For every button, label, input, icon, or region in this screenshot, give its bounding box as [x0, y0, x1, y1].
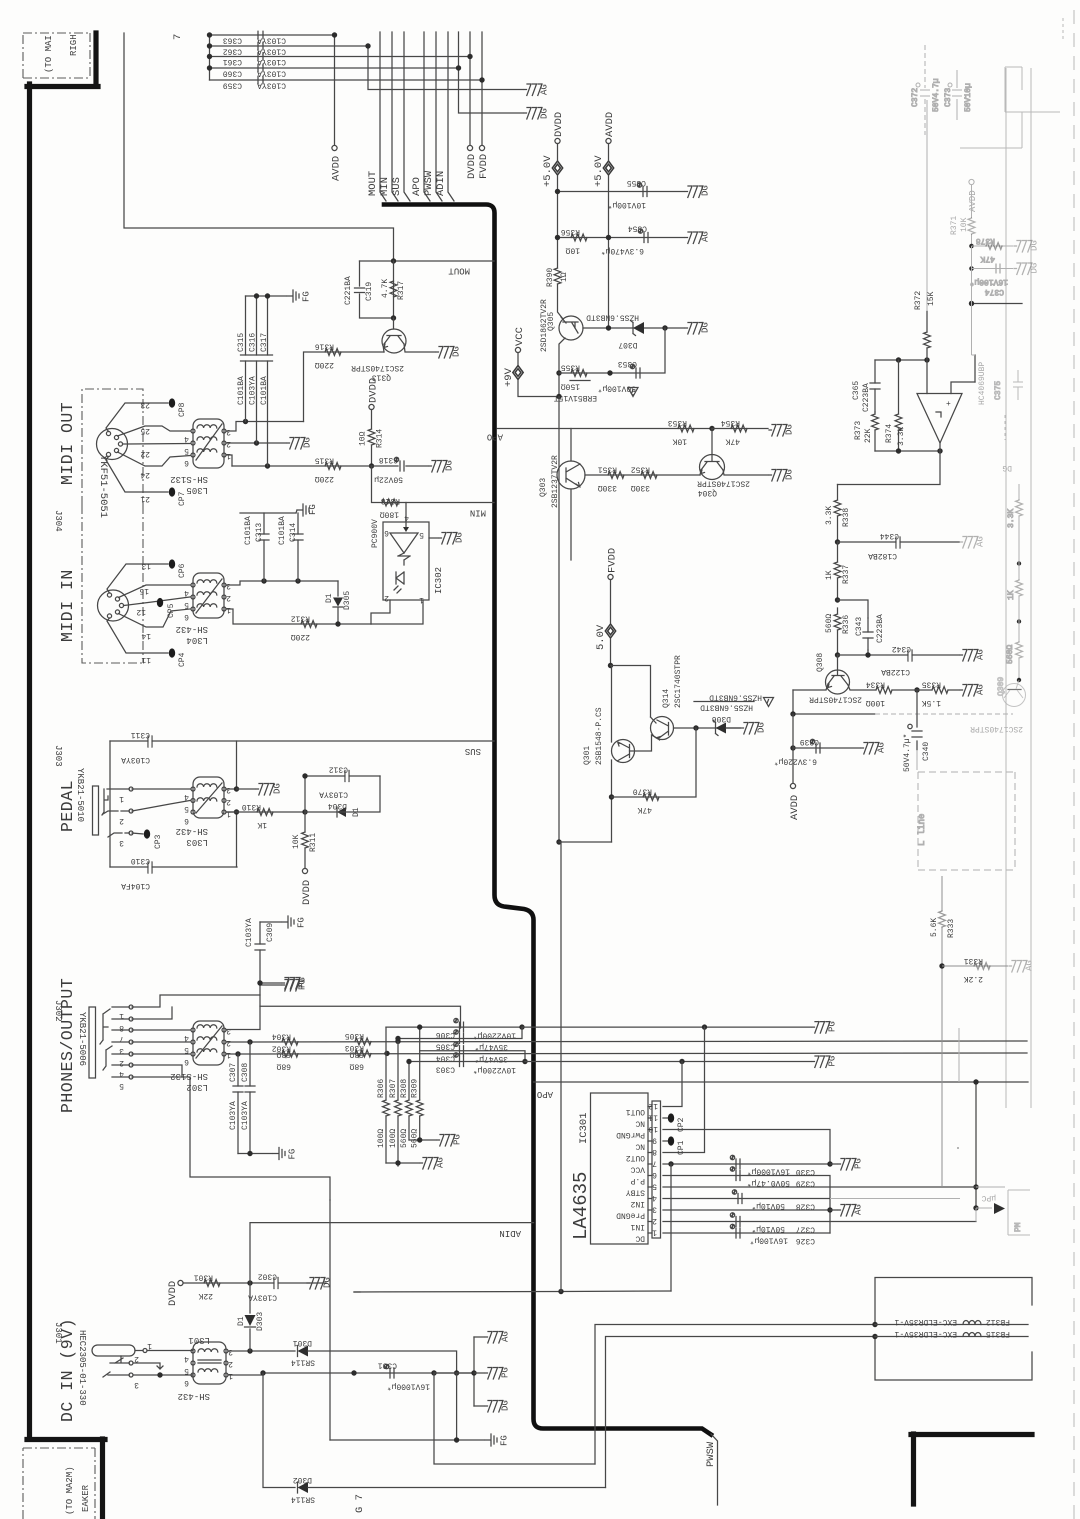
svg-text:2: 2	[226, 797, 231, 806]
node R356 row right	[606, 235, 611, 240]
resistor R338 3.3K	[825, 500, 851, 542]
wire MIDI IN pin 14 fan	[119, 609, 191, 627]
svg-text:HZS5.6NB3TD: HZS5.6NB3TD	[700, 703, 753, 712]
resistor R306 100ohm vertical	[377, 1027, 389, 1163]
dash-dot box top-left (TO MAIN)	[23, 33, 90, 78]
svg-text:C103YA: C103YA	[257, 69, 286, 78]
svg-text:11: 11	[141, 655, 151, 664]
svg-text:DG: DG	[273, 783, 283, 794]
svg-text:R351: R351	[598, 465, 617, 474]
wire PWSW exit bottom	[711, 1434, 718, 1505]
wire AG spur vertical	[368, 46, 523, 90]
svg-text:IC301: IC301	[578, 1112, 590, 1144]
svg-text:AG: AG	[976, 684, 986, 695]
svg-text:YKF51-5051: YKF51-5051	[97, 455, 109, 518]
svg-text:5.0V: 5.0V	[595, 624, 607, 650]
faint box top right	[1005, 67, 1060, 112]
svg-text:J304: J304	[53, 510, 63, 532]
node C317 top	[265, 293, 270, 298]
faint wire top right	[960, 112, 1022, 148]
faint vertical x959	[958, 1028, 960, 1082]
svg-text:R315: R315	[315, 456, 334, 465]
node right 1K top	[1017, 561, 1021, 565]
ground C374 faint	[1014, 263, 1040, 275]
wire IC302 pin5 to ground	[429, 537, 438, 539]
svg-text:HZS5.6NB3TD: HZS5.6NB3TD	[586, 313, 639, 322]
wire R331 row	[942, 965, 1008, 967]
svg-text:C375: C375	[994, 381, 1003, 400]
wire IC302 pin2	[371, 600, 390, 624]
svg-text:DG: DG	[1002, 463, 1012, 472]
node AVDD rail	[790, 711, 795, 716]
svg-text:MOUT: MOUT	[367, 171, 379, 196]
resistor R302 68ohm	[272, 1044, 298, 1071]
wire R390 to Q305 collector	[558, 284, 564, 319]
wire MIDI IN pin 11 fan	[107, 618, 168, 653]
node D303 bottom	[247, 1348, 252, 1353]
node D307 left	[606, 325, 611, 330]
wire x434 down to nested loop	[434, 1373, 595, 1464]
test point CP7	[169, 487, 187, 506]
terminal DVDD pedal	[302, 868, 307, 873]
svg-text:HZS5.6NB3TD: HZS5.6NB3TD	[709, 693, 762, 702]
wire phones contact 8	[112, 1007, 172, 1019]
svg-text:1: 1	[147, 1341, 152, 1350]
svg-text:C103YA: C103YA	[229, 1101, 238, 1130]
svg-text:EXC-ELDR35V-1: EXC-ELDR35V-1	[894, 1329, 957, 1338]
node C343 bottom	[865, 652, 870, 657]
svg-text:C103YA: C103YA	[257, 47, 286, 56]
svg-text:D307: D307	[618, 340, 637, 349]
resistor R373 22K	[854, 412, 878, 451]
capacitor C359	[223, 76, 286, 89]
svg-text:5: 5	[419, 530, 424, 539]
svg-text:220Ω: 220Ω	[291, 632, 310, 641]
svg-text:G 7: G 7	[354, 1494, 366, 1513]
wire L302 pin2 row R304 R305	[226, 1041, 1027, 1042]
node C339 row	[790, 745, 795, 750]
capacitor C360	[223, 64, 286, 77]
node C362 left	[207, 43, 212, 48]
svg-text:8: 8	[119, 1023, 124, 1032]
resistor R311 10K vertical	[292, 812, 318, 869]
svg-text:C342: C342	[892, 644, 911, 653]
node opamp out	[937, 448, 942, 453]
resistor R312 220ohm	[291, 614, 317, 642]
wire APO row	[497, 428, 712, 430]
ground PG phones top	[282, 977, 308, 989]
resistor R336 560ohm	[825, 608, 851, 655]
ground DG R354	[769, 424, 795, 436]
node L303 pin3	[234, 786, 239, 791]
ground DG L305	[287, 437, 313, 449]
svg-text:PC900V: PC900V	[371, 519, 380, 548]
node STBY join	[973, 1184, 978, 1189]
wire R372 up long	[926, 100, 928, 311]
wire VCC rail bottom	[354, 1291, 671, 1292]
svg-text:C103YA: C103YA	[245, 918, 254, 947]
wire FG row bottom	[330, 1439, 484, 1441]
resistor R353 10K	[668, 418, 694, 446]
node R310 right	[302, 809, 307, 814]
svg-text:Q301: Q301	[583, 746, 592, 765]
svg-text:C372: C372	[911, 88, 920, 107]
svg-text:NC: NC	[635, 1142, 645, 1151]
svg-text:IN1: IN1	[630, 1222, 645, 1231]
ground AG top	[524, 84, 550, 96]
wire PWSW bus line	[436, 32, 442, 201]
svg-text:+5.0V: +5.0V	[593, 155, 605, 187]
svg-text:4: 4	[184, 588, 189, 597]
svg-text:R310: R310	[242, 802, 261, 811]
svg-text:50V10µ: 50V10µ	[964, 83, 973, 112]
svg-text:C101BA: C101BA	[244, 516, 253, 545]
svg-text:PM: PM	[1014, 1222, 1023, 1232]
node C344 row	[835, 539, 840, 544]
svg-text:10Ω: 10Ω	[359, 431, 368, 446]
svg-text:AG: AG	[436, 1157, 446, 1168]
node C360 left	[207, 65, 212, 70]
capacitor C330 16V1000u	[730, 1155, 815, 1176]
svg-text:9: 9	[652, 1136, 657, 1145]
svg-text:CP3: CP3	[154, 834, 163, 849]
wire MIDI OUT pin 24 fan	[118, 452, 191, 466]
svg-text:+: +	[946, 400, 951, 409]
ground AG PreGND	[830, 1204, 864, 1216]
border corner bracket bottom-right	[911, 1434, 1032, 1504]
node 9V rail	[556, 394, 561, 399]
svg-text:C327: C327	[796, 1225, 815, 1234]
resistor R309 560ohm vertical	[411, 1027, 423, 1148]
wire cap tops to FG	[246, 295, 287, 297]
svg-text:MIN: MIN	[379, 177, 391, 196]
wire C344 row	[838, 541, 960, 543]
wire audio chain top	[837, 485, 839, 501]
svg-text:APO: APO	[411, 177, 423, 196]
resistor R333 5.6K	[930, 911, 956, 938]
node R308 bottom	[417, 1137, 422, 1142]
svg-text:C103YA: C103YA	[257, 81, 286, 90]
node R371 bottom	[969, 301, 974, 306]
node PG phones	[257, 980, 262, 985]
svg-text:IC302: IC302	[434, 567, 444, 594]
transformer L303 SH-432	[176, 777, 231, 847]
wire MIDI IN pin 12 fan	[124, 597, 191, 606]
svg-text:VCC: VCC	[630, 1165, 645, 1174]
svg-text:7: 7	[172, 34, 184, 40]
wire nested loop B	[606, 1337, 876, 1488]
wire from other sheet top-left	[124, 33, 394, 261]
svg-text:R370: R370	[633, 787, 652, 796]
svg-text:6: 6	[184, 458, 189, 467]
resistor right 1K	[1016, 580, 1023, 596]
wire C342 row	[838, 654, 960, 656]
node R378 row	[969, 244, 974, 249]
svg-text:AG: AG	[540, 84, 550, 95]
diode D303	[237, 1283, 265, 1351]
svg-text:DG: DG	[701, 322, 711, 333]
ferrite bead FB315	[875, 1329, 1028, 1338]
svg-text:C326: C326	[796, 1236, 815, 1245]
svg-text:6: 6	[184, 1378, 189, 1387]
wire C312 down join	[305, 776, 380, 812]
node R301 right	[247, 1280, 252, 1285]
wire right column	[1018, 542, 1020, 580]
svg-text:220Ω: 220Ω	[315, 474, 334, 483]
ground R378 faint	[1014, 240, 1040, 252]
svg-text:6.3V220µ*: 6.3V220µ*	[774, 757, 817, 766]
svg-text:(TO MA2M): (TO MA2M)	[65, 1466, 75, 1515]
svg-text:R378: R378	[976, 236, 995, 245]
capacitor C314 C101BA	[278, 513, 303, 581]
svg-text:23: 23	[140, 400, 150, 409]
wire APO bottom row	[534, 1081, 1029, 1083]
wire L304 pin1 to R312 row	[226, 609, 371, 624]
svg-text:YKB21-5006: YKB21-5006	[77, 1012, 87, 1066]
ground AG R307	[420, 1157, 446, 1169]
node APO drop	[973, 1079, 978, 1084]
svg-text:R355: R355	[561, 363, 580, 372]
wire DG spur vertical	[459, 32, 524, 113]
pin circle dc 1	[143, 1349, 147, 1353]
wire R308 R309 to PG	[409, 1139, 436, 1141]
svg-text:C339: C339	[800, 737, 819, 746]
svg-text:VCC: VCC	[514, 327, 526, 346]
svg-text:2: 2	[652, 1216, 657, 1225]
svg-text:D305: D305	[343, 591, 352, 610]
test point CP6	[169, 559, 187, 578]
svg-text:5: 5	[119, 1081, 124, 1090]
svg-text:R372: R372	[914, 291, 923, 310]
wire C361 row	[210, 56, 471, 58]
node dc pin3	[157, 1372, 162, 1377]
resistor R316 220ohm	[315, 342, 341, 370]
svg-text:R305: R305	[345, 1031, 364, 1040]
wire MIDI OUT pin 21 fan	[106, 457, 168, 493]
wire DVDD rail vertical	[557, 144, 559, 269]
wire AVDD down	[792, 714, 794, 783]
capacitor C312 C103YA	[319, 765, 349, 799]
diode D305	[325, 581, 352, 624]
svg-text:C362: C362	[223, 47, 242, 56]
svg-text:47K: 47K	[980, 254, 995, 263]
node C374 row	[969, 266, 974, 271]
wire 9V rail long vertical	[559, 397, 612, 843]
connector pedal jack body	[93, 786, 109, 835]
svg-text:D303: D303	[256, 1312, 265, 1331]
svg-text:4: 4	[652, 1193, 657, 1202]
wire MIDI IN pin 13 fan	[107, 564, 168, 593]
svg-text:SR114: SR114	[291, 1495, 315, 1504]
pin circle pedal 3	[129, 831, 133, 835]
wire L301 pin1 row	[228, 1373, 474, 1375]
node DG spur	[456, 65, 461, 70]
right inter-sheet faint bus line B	[1030, 68, 1032, 1108]
node R370 left	[609, 794, 614, 799]
svg-text:AG: AG	[1025, 960, 1035, 971]
svg-text:R308: R308	[400, 1079, 409, 1098]
svg-text:AG: AG	[976, 649, 986, 660]
svg-text:D306: D306	[712, 714, 731, 723]
svg-text:PG: PG	[828, 1021, 838, 1032]
svg-text:1Ω: 1Ω	[560, 272, 569, 282]
svg-text:2SC1740STPR: 2SC1740STPR	[674, 655, 683, 708]
svg-text:L line: L line	[917, 814, 927, 846]
node R356 row left	[555, 235, 560, 240]
wire L302 pin3 to PG	[226, 983, 281, 1030]
svg-text:R335: R335	[922, 680, 941, 689]
wire AG PG DG ladder	[434, 1372, 458, 1374]
dash-dot box bottom-left (TO MA2M SPEAKER)	[23, 1448, 95, 1519]
svg-text:HC4069UBP: HC4069UBP	[978, 362, 987, 405]
svg-text:4: 4	[184, 1033, 189, 1042]
wire R371 down to opamp	[972, 246, 976, 355]
svg-text:PwrGND: PwrGND	[616, 1130, 645, 1139]
pin stubs and numbers IC301	[648, 1101, 661, 1238]
svg-text:(TO MAI: (TO MAI	[44, 35, 54, 73]
capacitor C362	[223, 42, 286, 55]
node C301 left	[260, 1370, 265, 1375]
svg-text:560Ω: 560Ω	[825, 614, 834, 633]
ground DG L303	[237, 783, 283, 795]
svg-text:PG: PG	[298, 977, 308, 988]
svg-text:2: 2	[228, 1359, 233, 1368]
svg-text:68Ω: 68Ω	[349, 1062, 364, 1071]
ground R331 faint	[1009, 960, 1035, 972]
svg-text:FG: FG	[302, 291, 312, 302]
svg-text:SUS: SUS	[391, 177, 403, 196]
frame ground FG phones	[273, 1148, 298, 1160]
op-amp IC302 PC900V body	[371, 519, 444, 600]
svg-text:R352: R352	[631, 465, 650, 474]
capacitor C344 C182BA	[868, 531, 900, 560]
svg-text:C101BA: C101BA	[237, 376, 246, 405]
terminal DVDD	[467, 145, 472, 150]
svg-text:15K: 15K	[927, 291, 936, 306]
node C306 left	[417, 1024, 422, 1029]
svg-text:APO: APO	[487, 432, 503, 442]
terminal AVDD audio	[790, 783, 795, 788]
wire VCC pin7	[663, 1163, 830, 1165]
frame ground FG midi in	[296, 504, 318, 516]
wire C363 row	[210, 34, 335, 36]
pin circle dc 3	[129, 1373, 133, 1377]
capacitor C318 50V22u	[374, 455, 404, 484]
capacitor C326 16V100u	[730, 1224, 815, 1245]
svg-text:R371: R371	[950, 216, 959, 235]
svg-text:C313: C313	[255, 523, 264, 542]
transistor Q313 2SC1740STPR	[351, 318, 435, 382]
svg-text:Q314: Q314	[662, 689, 671, 708]
wire shield top to C306 row	[260, 1006, 461, 1028]
faint caps right of opamp	[994, 370, 1023, 440]
svg-text:C302: C302	[258, 1272, 277, 1281]
ground AG R335	[960, 684, 986, 696]
wire phones contact 2	[112, 1053, 190, 1055]
wire Q303 base row	[585, 474, 700, 476]
svg-text:2: 2	[226, 593, 231, 602]
svg-text:68Ω: 68Ω	[276, 1062, 291, 1071]
svg-text:2SC1740STPR: 2SC1740STPR	[351, 363, 404, 372]
resistor R337 1K	[825, 542, 851, 600]
svg-text:7: 7	[652, 1159, 657, 1168]
wire faint vertical below triangle	[975, 1208, 977, 1222]
svg-text:C103YA: C103YA	[249, 376, 258, 405]
transistor Q305 2SD1862TV2R	[547, 312, 583, 340]
svg-text:C359: C359	[223, 81, 242, 90]
wire C312 row	[305, 776, 380, 812]
node VCC rail	[558, 1289, 563, 1294]
wire VCC to +9V to rail	[518, 353, 559, 397]
svg-text:C316: C316	[249, 333, 258, 352]
svg-text:R302: R302	[272, 1044, 291, 1053]
resistor R303 68ohm	[345, 1043, 371, 1071]
resistor R331 2.2K	[964, 956, 990, 983]
pin circle pedal 2	[129, 809, 133, 813]
wire R316 row	[304, 352, 385, 422]
node opamp in top	[924, 357, 929, 362]
svg-text:SH-432: SH-432	[176, 826, 208, 836]
svg-text:2SC1740STPR: 2SC1740STPR	[809, 695, 862, 704]
svg-text:50V10µ*: 50V10µ*	[751, 1201, 785, 1210]
svg-text:DC: DC	[635, 1234, 645, 1243]
test point CP1	[663, 1136, 686, 1155]
node C316 top	[254, 293, 259, 298]
wire IN1 pin2	[663, 1221, 976, 1223]
resistor R351 330ohm	[598, 465, 624, 493]
svg-text:12: 12	[648, 1101, 658, 1110]
node R306 bottom	[395, 1160, 400, 1165]
node FB312	[872, 1322, 877, 1327]
wire Q305 to D307	[583, 327, 684, 329]
svg-text:MIDI OUT: MIDI OUT	[58, 402, 77, 485]
svg-text:2SB1237TV2R: 2SB1237TV2R	[551, 455, 560, 508]
wire MIN bus line	[392, 32, 398, 201]
wire Q305 emitter down	[559, 338, 565, 397]
svg-text:CP6: CP6	[178, 563, 187, 578]
node C301 right A	[431, 1370, 436, 1375]
ground DG top	[524, 108, 550, 120]
svg-text:R333: R333	[947, 919, 956, 938]
capacitor C339	[774, 737, 820, 766]
capacitor C304	[436, 1042, 508, 1063]
svg-text:25: 25	[140, 426, 150, 435]
svg-text:2: 2	[384, 593, 389, 602]
svg-text:DG: DG	[1030, 240, 1040, 251]
svg-text:3: 3	[652, 1205, 657, 1214]
resistor R307 100ohm vertical	[389, 1039, 401, 1167]
svg-text:C307: C307	[229, 1063, 238, 1082]
svg-text:C103YA: C103YA	[121, 755, 150, 764]
svg-text:C317: C317	[260, 333, 269, 352]
terminal FVDD	[479, 145, 484, 150]
node R355 row left	[556, 370, 561, 375]
svg-text:22K: 22K	[864, 428, 873, 443]
resistor R315 220ohm	[315, 456, 341, 484]
svg-text:SH-432: SH-432	[178, 1391, 210, 1401]
svg-text:16V1000µ*: 16V1000µ*	[747, 1167, 790, 1176]
test point CP5	[157, 598, 176, 618]
node ground ladder	[471, 1370, 476, 1375]
node C307 top	[235, 1051, 240, 1056]
svg-text:DG: DG	[757, 722, 767, 733]
svg-text:1.5K: 1.5K	[922, 698, 941, 707]
svg-text:10K: 10K	[960, 217, 969, 232]
wire R370 row	[612, 728, 697, 797]
ground DG Q313	[436, 346, 462, 358]
node L303 pin1	[234, 809, 239, 814]
svg-text:AVDD: AVDD	[968, 190, 978, 212]
